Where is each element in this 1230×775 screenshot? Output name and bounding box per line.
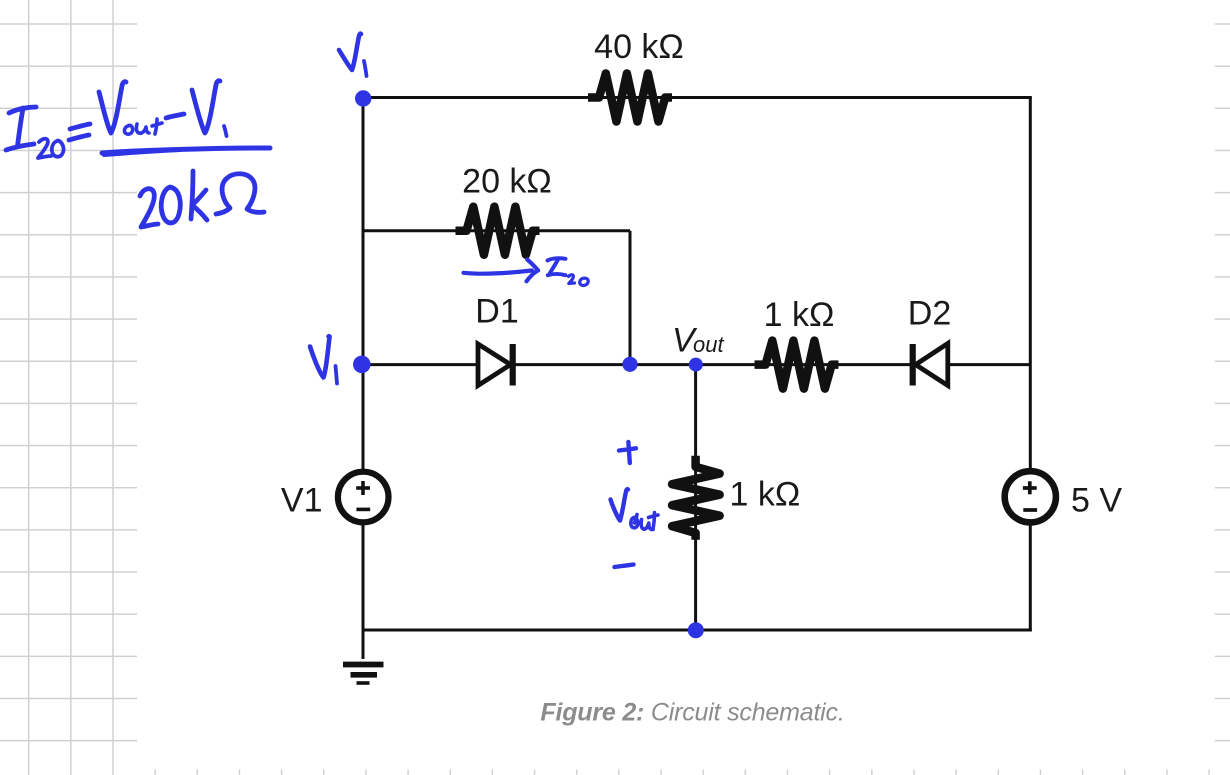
handwritten formula I20 = (Vout - V1)/20k (6, 81, 270, 227)
diode D1 (475, 293, 518, 386)
I glyph (9, 107, 36, 113)
wire: 20k branch horizontal (363, 229, 630, 232)
fraction bar (102, 148, 270, 153)
resistor R 1k (vertical) (672, 456, 720, 540)
equals (70, 124, 90, 129)
node dot 20k junction (622, 357, 637, 372)
voltage source 5V (1005, 471, 1123, 522)
V of V1 (192, 81, 220, 133)
node dot V1 middle (353, 356, 371, 374)
I glyph (548, 258, 566, 260)
svg-text:Figure 2: Circuit schematic.: Figure 2: Circuit schematic. (540, 699, 844, 727)
subscript 1 (224, 126, 227, 136)
subscript 20 (569, 275, 575, 284)
minus (166, 114, 184, 118)
denominator omega (216, 174, 264, 214)
wire: right rail below 5V source (1029, 522, 1032, 632)
handwritten +/Vout/- annotation (611, 442, 659, 567)
wire: 20k branch drop to middle row (629, 231, 632, 365)
svg-text:out: out (693, 332, 724, 357)
wire: left rail below V1 source (362, 523, 365, 659)
handwritten V1 label top (339, 34, 367, 76)
ground (343, 665, 384, 684)
svg-text:1 kΩ: 1 kΩ (730, 476, 801, 514)
wire: left vertical rail (362, 98, 365, 473)
subscript 20 (38, 139, 51, 158)
node dot V1 top (355, 90, 371, 106)
out subscript (124, 125, 132, 134)
svg-text:1 kΩ: 1 kΩ (764, 296, 835, 334)
wire: top horizontal (node V1 to right rail) (363, 96, 1032, 99)
resistor R 20k (456, 207, 540, 255)
resistor R 1k (horizontal) (755, 341, 839, 389)
svg-text:D2: D2 (908, 295, 951, 333)
svg-text:V1: V1 (281, 482, 323, 520)
svg-text:D1: D1 (475, 293, 518, 331)
handwritten V1 label middle (310, 336, 337, 383)
voltage source V1 (281, 472, 389, 523)
wire: Vout drop to 1k vertical (694, 365, 697, 632)
denominator k (191, 171, 193, 219)
wire: right vertical rail (1029, 98, 1032, 474)
svg-text:20 kΩ: 20 kΩ (462, 163, 552, 201)
V of Vout (99, 82, 126, 133)
node dot bottom (688, 622, 704, 638)
denominator 0 (161, 187, 180, 223)
svg-text:5 V: 5 V (1071, 482, 1122, 520)
svg-text:40 kΩ: 40 kΩ (594, 28, 684, 66)
resistor R 40k (588, 74, 672, 122)
wire: middle row horizontal (363, 363, 1031, 366)
diode D2 (908, 295, 951, 386)
wire: bottom horizontal (362, 629, 1032, 632)
node dot Vout (689, 358, 703, 372)
denominator 2 (140, 189, 158, 227)
handwritten arrow I20 (464, 258, 589, 285)
